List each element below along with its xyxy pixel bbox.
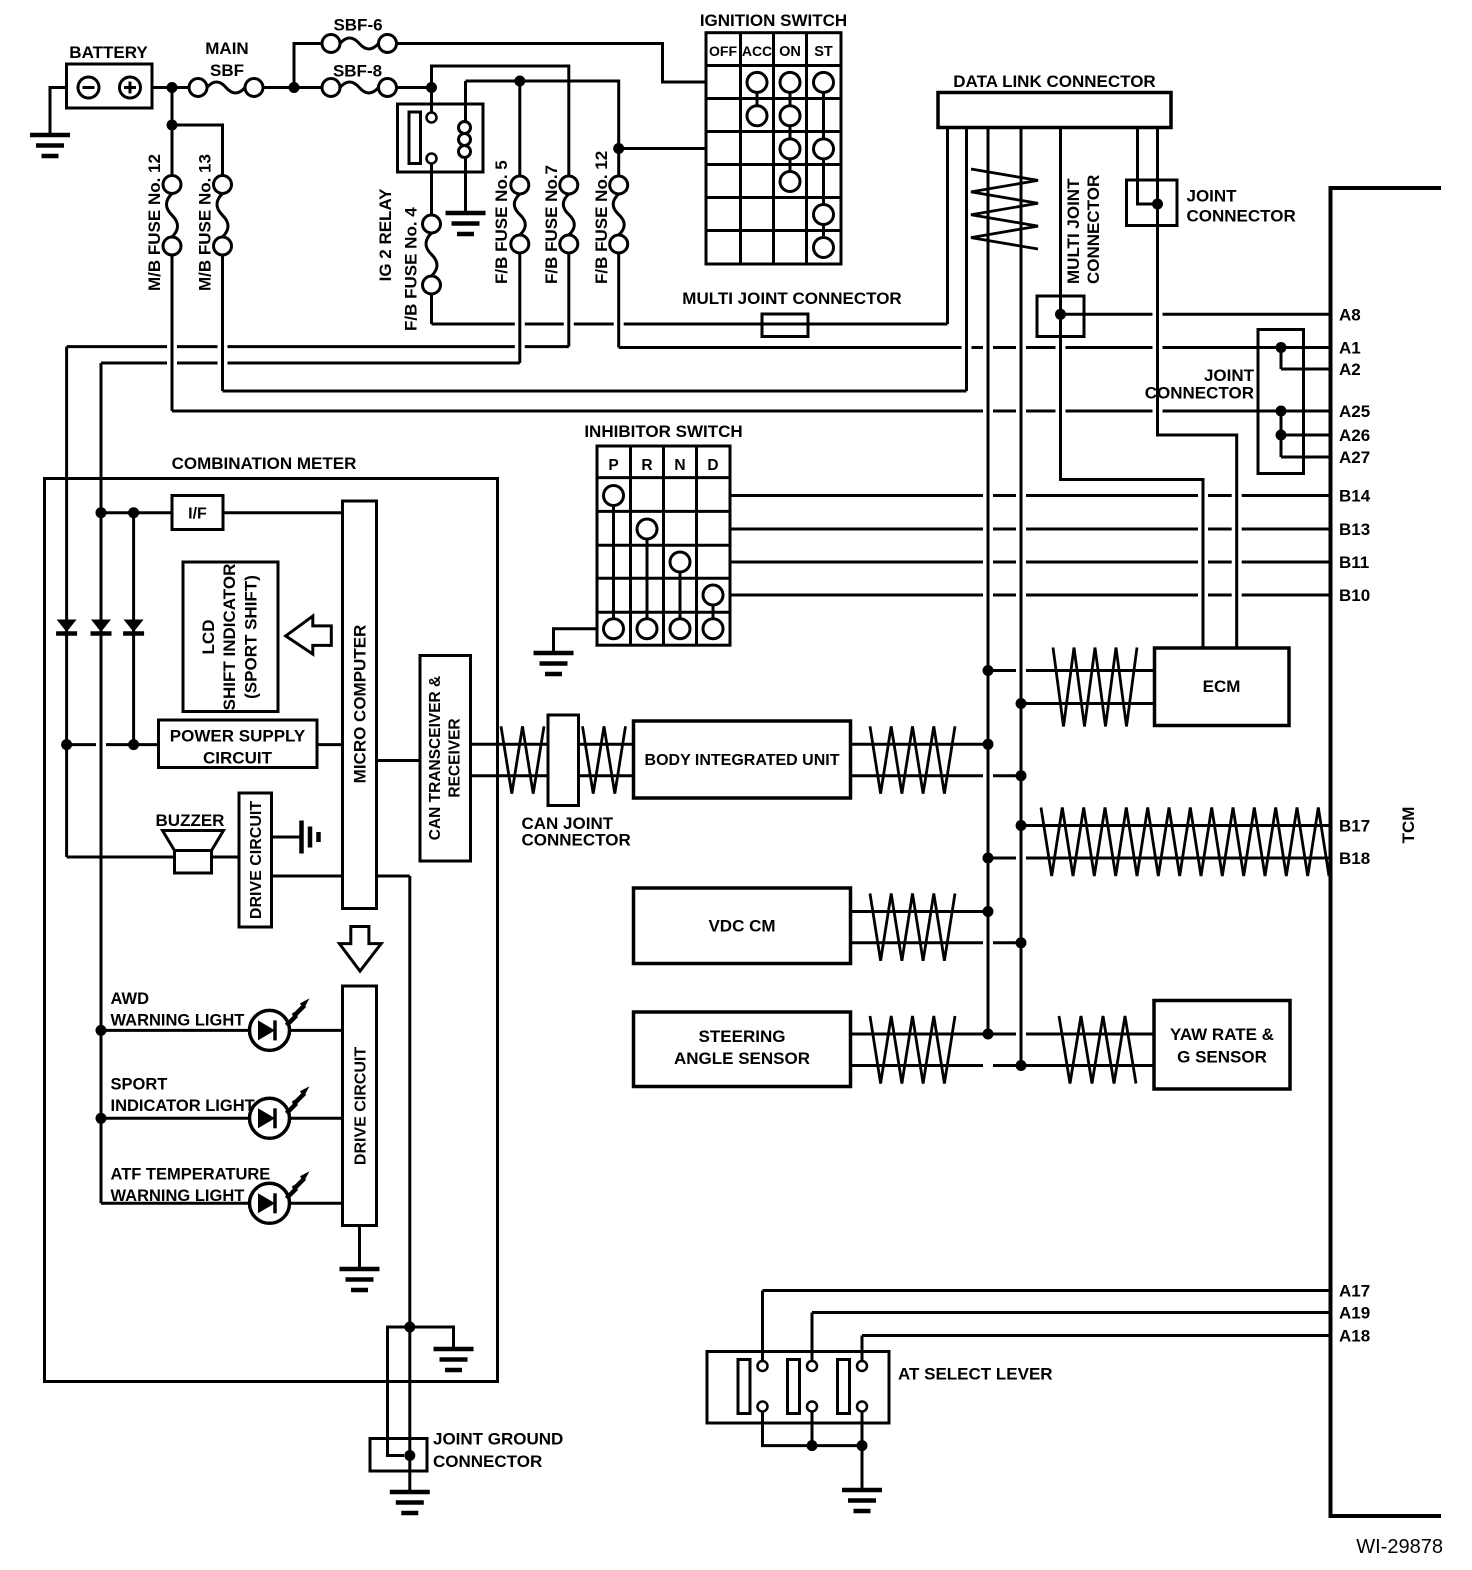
svg-text:JOINT: JOINT	[1187, 187, 1238, 206]
battery	[67, 64, 153, 108]
svg-text:B18: B18	[1339, 849, 1370, 868]
svg-text:MAIN: MAIN	[205, 39, 248, 58]
wire I/F feed line	[101, 511, 172, 514]
wire BIU CAN-L to bus	[851, 774, 1022, 777]
data link connector	[938, 93, 1171, 128]
svg-text:WARNING LIGHT: WARNING LIGHT	[111, 1012, 245, 1030]
svg-text:BODY INTEGRATED UNIT: BODY INTEGRATED UNIT	[645, 752, 840, 769]
svg-text:DRIVE CIRCUIT: DRIVE CIRCUIT	[353, 1047, 370, 1165]
wire A27 stub	[1281, 456, 1331, 459]
arrow micro computer to LCD	[286, 616, 332, 654]
svg-text:CIRCUIT: CIRCUIT	[203, 749, 273, 768]
svg-text:ST: ST	[814, 44, 833, 60]
wire battery positive to junction	[152, 86, 189, 89]
svg-text:F/B FUSE No. 12: F/B FUSE No. 12	[592, 151, 611, 284]
svg-text:CONNECTOR: CONNECTOR	[1187, 207, 1296, 226]
wire CAN-H to ECM	[988, 669, 1155, 672]
CAN joint connector	[548, 715, 579, 806]
svg-text:M/B FUSE No. 12: M/B FUSE No. 12	[145, 154, 164, 291]
svg-text:VDC CM: VDC CM	[708, 917, 775, 936]
wire A26 stub	[1281, 434, 1331, 437]
drive circuit (warning lights)	[343, 986, 377, 1226]
I/F	[172, 496, 223, 530]
svg-text:JOINT GROUND: JOINT GROUND	[433, 1430, 563, 1449]
yaw rate and G sensor	[1154, 1001, 1290, 1090]
svg-text:A27: A27	[1339, 448, 1370, 467]
svg-text:M/B FUSE No. 13: M/B FUSE No. 13	[196, 154, 215, 291]
svg-text:(SPORT SHIFT): (SPORT SHIFT)	[242, 575, 261, 699]
svg-text:A25: A25	[1339, 402, 1370, 421]
wire left branch to joint ground connector	[388, 1327, 410, 1456]
junction J3	[426, 82, 437, 93]
wire DLC pin 6 to joint connector	[1138, 128, 1158, 205]
multi joint connector (in fuse 4 line)	[762, 314, 808, 337]
ground (battery)	[30, 133, 70, 138]
svg-text:CAN TRANSCEIVER &: CAN TRANSCEIVER &	[427, 676, 444, 840]
ground (buzzer drive circuit)	[299, 821, 304, 854]
LED sport indicator light	[101, 1117, 343, 1120]
svg-text:SPORT: SPORT	[111, 1076, 168, 1094]
wire M/B fuse No. 12 to TCM A25	[171, 256, 174, 412]
fuse M/B FUSE No. 13	[214, 176, 232, 194]
steering angle sensor	[634, 1012, 851, 1087]
CAN transceiver and receiver	[420, 656, 471, 862]
twisted pair symbol (meter CAN)	[501, 726, 544, 793]
svg-text:COMBINATION METER: COMBINATION METER	[172, 454, 357, 473]
fuse F/B FUSE No. 4	[423, 215, 441, 233]
wire B18: CAN-H to TCM	[988, 857, 1331, 860]
svg-text:N: N	[674, 457, 685, 474]
joint connector (TCM A pins)	[1258, 330, 1304, 474]
wire CAN-H meter to body integrated unit	[471, 743, 634, 746]
svg-text:A1: A1	[1339, 339, 1361, 358]
wire B11: inhibitor N to TCM	[730, 561, 1331, 564]
svg-text:A19: A19	[1339, 1304, 1370, 1323]
svg-text:B14: B14	[1339, 487, 1371, 506]
svg-text:JOINT: JOINT	[1204, 366, 1255, 385]
svg-text:CONNECTOR: CONNECTOR	[522, 831, 631, 850]
junction on IG feed at F/B fuse No. 5	[514, 76, 525, 87]
ground (relay coil)	[446, 211, 486, 216]
wire B13: inhibitor R to TCM	[730, 528, 1331, 531]
ground (inhibitor switch)	[534, 651, 574, 656]
wire relay coil top / IG feed net to ignition row 3	[464, 81, 467, 104]
fuse SBF-6	[322, 35, 340, 53]
wire feed A to buzzer	[67, 856, 175, 859]
svg-text:OFF: OFF	[709, 43, 737, 59]
wire SAS CAN-L to yaw rate sensor	[851, 1064, 1155, 1067]
svg-text:AT SELECT LEVER: AT SELECT LEVER	[898, 1365, 1053, 1384]
fuse MAIN SBF	[189, 79, 207, 97]
wire DLC pin 5 through multi joint connector to ECM	[1061, 128, 1204, 649]
svg-text:CONNECTOR: CONNECTOR	[1145, 384, 1254, 403]
svg-text:DRIVE CIRCUIT: DRIVE CIRCUIT	[248, 801, 265, 919]
svg-text:RECEIVER: RECEIVER	[447, 718, 464, 797]
joint ground connector	[370, 1439, 427, 1472]
svg-text:G SENSOR: G SENSOR	[1177, 1048, 1267, 1067]
svg-text:MULTI JOINT CONNECTOR: MULTI JOINT CONNECTOR	[682, 289, 901, 308]
twisted pair symbol (SAS)	[870, 1016, 955, 1084]
wire F/B fuse No. 7 to combination meter feed A	[567, 253, 570, 347]
wire A18: select lever to TCM	[861, 1336, 864, 1362]
wire DLC pin 4 CAN-L vertical bus	[1020, 128, 1023, 1066]
svg-text:WARNING LIGHT: WARNING LIGHT	[111, 1187, 245, 1205]
ground (drive circuit 2)	[340, 1267, 380, 1272]
wire J1 down to junction J4	[171, 88, 174, 126]
junction (joint ground)	[404, 1322, 415, 1333]
svg-text:AWD: AWD	[111, 990, 150, 1008]
wire J3 up-over to F/B fuse No. 7	[432, 66, 569, 176]
wire IG feed down to F/B fuse No. 5	[518, 81, 521, 176]
drive circuit (buzzer)	[239, 793, 272, 927]
svg-text:ACC: ACC	[742, 43, 772, 59]
twisted pair symbol (yaw rate)	[1059, 1016, 1136, 1084]
svg-text:P: P	[608, 457, 618, 474]
junction J4	[167, 120, 178, 131]
junction J1	[167, 82, 178, 93]
ground (AT select lever)	[842, 1488, 882, 1493]
wire F/B fuse No. 12 to TCM A1	[617, 253, 620, 348]
wire inhibitor switch to ground	[554, 629, 598, 653]
svg-text:D: D	[707, 457, 718, 474]
wire A8: multi joint connector to TCM	[1061, 313, 1331, 316]
inhibitor switch	[597, 446, 730, 645]
wire DLC pin 2 down to M/B fuse 13 line	[965, 128, 968, 392]
svg-text:INDICATOR LIGHT: INDICATOR LIGHT	[111, 1097, 255, 1115]
wire MAIN SBF to junction J2	[263, 86, 322, 89]
wire feed A (fuse 7) into meter	[65, 347, 68, 857]
fuse SBF-8	[322, 79, 340, 97]
svg-text:ATF TEMPERATURE: ATF TEMPERATURE	[111, 1166, 271, 1184]
wire DLC pin 1 down to fuse 4 line	[946, 128, 949, 325]
svg-text:DATA LINK CONNECTOR: DATA LINK CONNECTOR	[953, 72, 1155, 91]
LED ATF temperature warning light	[101, 1202, 343, 1205]
wire J4 to M/B fuse No. 13	[172, 125, 223, 176]
wire battery negative to ground	[50, 88, 67, 136]
svg-text:ANGLE SENSOR: ANGLE SENSOR	[674, 1049, 810, 1068]
VDC CM	[634, 888, 851, 964]
svg-text:YAW RATE &: YAW RATE &	[1170, 1025, 1274, 1044]
twisted pair symbol (CAN joint to BIU)	[583, 726, 626, 793]
twisted pair symbol (VDC CM)	[870, 894, 955, 961]
wire J4 to M/B fuse No. 12	[171, 125, 174, 176]
wire DLC pin 3 CAN-H vertical bus	[987, 128, 990, 1035]
svg-text:IGNITION SWITCH: IGNITION SWITCH	[700, 11, 847, 30]
wire B17: CAN-L to TCM	[1021, 824, 1331, 827]
svg-text:CONNECTOR: CONNECTOR	[433, 1452, 542, 1471]
jumper A1 to A2	[1280, 348, 1283, 370]
ignition switch	[706, 33, 841, 264]
wire SAS CAN-H to yaw rate sensor	[851, 1033, 1155, 1036]
wire CAN-L to ECM	[1021, 702, 1155, 705]
fuse F/B FUSE No. 7	[560, 176, 578, 194]
svg-text:WI-29878: WI-29878	[1356, 1536, 1443, 1558]
svg-text:ECM: ECM	[1203, 677, 1241, 696]
wire VDC CM CAN-H	[851, 910, 989, 913]
diode (feed B)	[91, 620, 111, 633]
svg-text:IG 2 RELAY: IG 2 RELAY	[376, 188, 395, 282]
svg-text:CONNECTOR: CONNECTOR	[1084, 175, 1103, 284]
wire joint ground vertical	[408, 876, 411, 1491]
diode (feed C)	[124, 620, 144, 633]
wire J2 up to SBF-6	[294, 44, 322, 88]
micro computer	[343, 501, 377, 909]
wire relay contact pin 2 to F/B fuse No. 4	[430, 164, 433, 216]
twisted pair symbol (ECM CAN)	[1053, 648, 1137, 727]
svg-text:MICRO COMPUTER: MICRO COMPUTER	[351, 625, 370, 784]
ground (meter right)	[434, 1347, 474, 1352]
wire A19: select lever to TCM	[811, 1313, 814, 1362]
wire micro computer to joint ground vertical	[377, 875, 410, 878]
svg-text:SBF: SBF	[210, 61, 244, 80]
jumper A25-A26-A27	[1280, 411, 1283, 457]
svg-text:F/B FUSE No. 5: F/B FUSE No. 5	[492, 160, 511, 284]
wire SBF-6 to ignition switch row 1	[397, 44, 707, 83]
ECM	[1155, 648, 1290, 726]
svg-text:ON: ON	[779, 44, 801, 60]
wire CAN-L meter to body integrated unit	[471, 774, 634, 777]
svg-text:STEERING: STEERING	[699, 1027, 786, 1046]
wire IG feed down to F/B fuse No. 12	[617, 149, 620, 177]
multi joint connector (DLC)	[1037, 296, 1084, 337]
fuse M/B FUSE No. 12	[163, 176, 181, 194]
wire feed B (fuse 5) into meter, LED supply bus	[100, 363, 103, 1203]
svg-text:F/B FUSE No. 4: F/B FUSE No. 4	[402, 207, 421, 331]
wire power supply feed line	[67, 743, 159, 746]
wire select lever ground bus	[763, 1412, 863, 1446]
wire B14: inhibitor P to TCM	[730, 494, 1331, 497]
ground (joint ground connector)	[390, 1490, 430, 1495]
arrow micro computer to drive circuit 2	[339, 927, 381, 972]
svg-text:SHIFT INDICATOR: SHIFT INDICATOR	[220, 564, 239, 711]
wire to chassis ground right	[410, 1327, 454, 1349]
wire I/F to micro computer	[223, 511, 343, 514]
svg-text:LCD: LCD	[199, 620, 218, 655]
svg-text:SBF-8: SBF-8	[333, 62, 382, 81]
wire DLC pin 7 through joint connector to ECM	[1158, 128, 1237, 649]
wire BIU CAN-H to bus	[851, 743, 989, 746]
LCD shift indicator	[183, 562, 278, 712]
svg-text:TCM: TCM	[1399, 807, 1418, 844]
wire VDC CM CAN-L	[851, 941, 1022, 944]
svg-text:B10: B10	[1339, 586, 1370, 605]
svg-text:POWER SUPPLY: POWER SUPPLY	[170, 727, 306, 746]
wire A17: select lever to TCM	[761, 1291, 764, 1362]
svg-text:BATTERY: BATTERY	[69, 43, 148, 62]
joint connector (top)	[1127, 180, 1178, 226]
wire feed C (I/F line to power supply)	[132, 513, 135, 745]
body integrated unit	[634, 721, 851, 798]
wire drive circuit output to micro computer	[272, 875, 343, 878]
svg-text:B11: B11	[1339, 553, 1369, 572]
twisted pair symbol (DLC CAN lines)	[971, 169, 1038, 249]
svg-text:B17: B17	[1339, 817, 1370, 836]
wire relay coil to ground	[464, 158, 467, 214]
wire J3 to relay contact pin 1	[430, 88, 433, 113]
diode (feed A)	[57, 620, 77, 633]
power supply circuit	[159, 720, 318, 768]
svg-text:F/B FUSE No.7: F/B FUSE No.7	[542, 165, 561, 284]
wire drive circuit 2 to ground	[358, 1226, 361, 1270]
svg-text:A17: A17	[1339, 1282, 1370, 1301]
svg-text:A18: A18	[1339, 1327, 1370, 1346]
svg-text:A2: A2	[1339, 360, 1361, 379]
TCM	[1331, 188, 1442, 1516]
twisted pair symbol (TCM CAN)	[1041, 808, 1329, 877]
wire buzzer to drive circuit	[212, 856, 240, 859]
svg-text:I/F: I/F	[188, 506, 207, 523]
svg-text:INHIBITOR SWITCH: INHIBITOR SWITCH	[584, 422, 742, 441]
svg-text:R: R	[641, 457, 652, 474]
twisted pair symbol (BIU right)	[870, 726, 955, 793]
svg-text:A26: A26	[1339, 426, 1370, 445]
junction on IG feed at ignition row 3	[613, 143, 624, 154]
svg-text:BUZZER: BUZZER	[156, 811, 225, 830]
fuse F/B FUSE No. 12	[610, 176, 628, 194]
svg-text:SBF-6: SBF-6	[333, 16, 382, 35]
combination meter	[45, 479, 498, 1382]
relay U1 IG 2 RELAY	[398, 104, 484, 172]
svg-text:MULTI JOINT: MULTI JOINT	[1064, 178, 1083, 284]
wire A2 stub	[1281, 368, 1331, 371]
svg-text:B13: B13	[1339, 520, 1370, 539]
wire bus to ground	[861, 1446, 864, 1490]
fuse F/B FUSE No. 5	[511, 176, 529, 194]
LED AWD warning light	[101, 1029, 343, 1032]
svg-text:A8: A8	[1339, 305, 1361, 324]
wire micro computer to CAN transceiver	[377, 759, 421, 762]
wire M/B fuse No. 13 to data link connector pin 2	[221, 256, 224, 392]
wire drive circuit to ground	[272, 836, 302, 839]
wire B10: inhibitor D to TCM	[730, 594, 1331, 597]
junction J2	[289, 82, 300, 93]
wire F/B fuse No. 4 to data link connector pin 1	[430, 294, 433, 324]
wire F/B fuse No. 5 to combination meter feed B	[518, 253, 521, 363]
wire power supply circuit to micro computer	[317, 743, 343, 746]
AT select lever	[707, 1352, 889, 1424]
wire SBF-8 to junction J3	[397, 86, 432, 89]
